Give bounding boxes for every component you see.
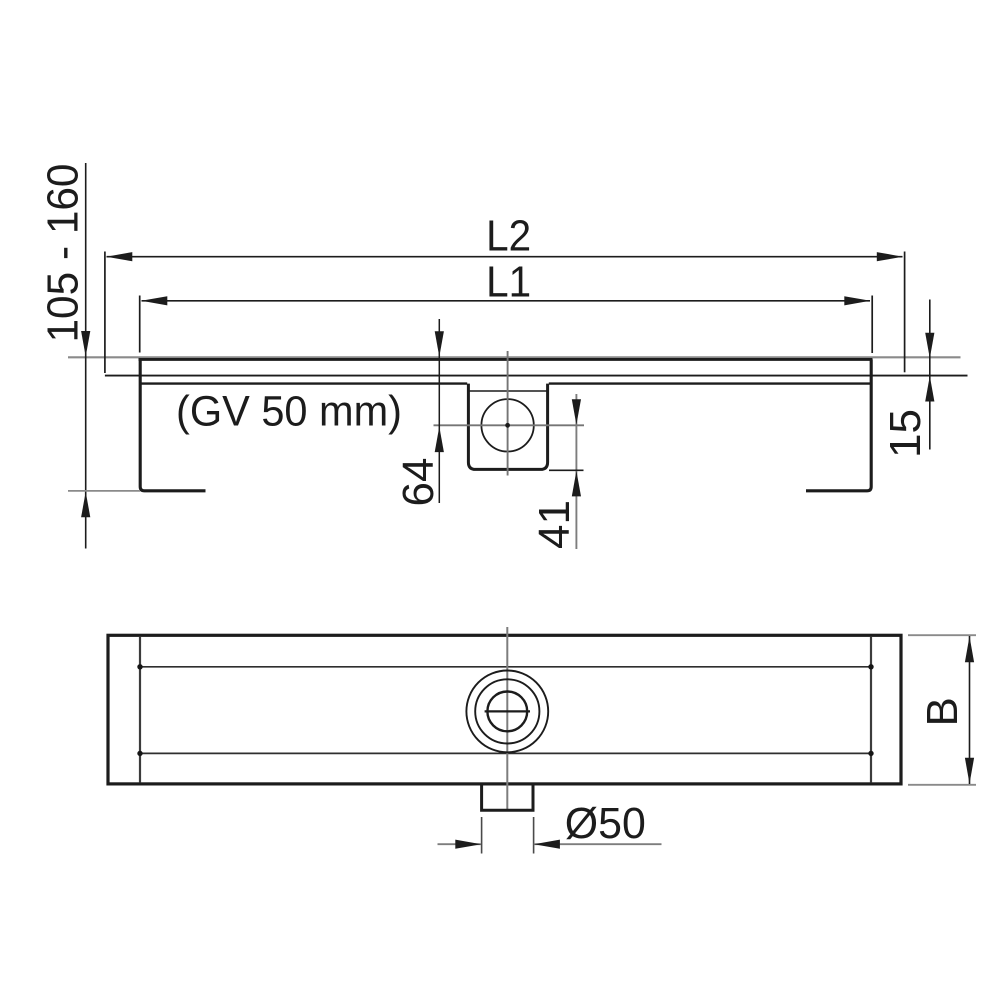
- dimension L2 left arrow: [106, 252, 132, 261]
- svg-text:64: 64: [394, 458, 443, 507]
- side view outlet circle: [481, 399, 533, 451]
- dimension L2 left extension line: [104, 252, 106, 374]
- left wall and foot: [140, 359, 205, 490]
- dimension 15 upper arrow: [925, 333, 934, 359]
- dimension L2 line: [107, 256, 903, 258]
- dimension 41 lower arrow: [572, 471, 581, 497]
- dimension D50 left arrow: [455, 840, 481, 849]
- dimension D50 left line segment: [438, 843, 482, 845]
- dimension 64 lower arrow: [435, 427, 444, 453]
- channel bottom edge right segment: [549, 382, 870, 384]
- dimension D50 right extension line: [533, 817, 535, 854]
- svg-text:105 - 160: 105 - 160: [39, 164, 88, 343]
- dimension L1 line: [142, 300, 871, 302]
- dimension 105-160 upper arrow: [81, 331, 90, 357]
- trap opening inner line: [469, 390, 548, 392]
- dimension 64 upper arrow: [435, 331, 444, 357]
- side view circle center dot: [505, 423, 510, 428]
- dimension B top arrow: [965, 636, 974, 662]
- vertical centerline (side view): [507, 351, 509, 476]
- plan view inner top edge: [140, 666, 871, 668]
- dimension L2 right arrow: [877, 252, 903, 261]
- plan view right inner edge: [870, 637, 872, 783]
- dimension 64 line: [438, 319, 440, 503]
- plan view corner dot bottom-left: [137, 751, 142, 756]
- channel middle edge / end flanges line (side view): [105, 375, 968, 377]
- dimension B top extension line: [908, 634, 976, 636]
- svg-text:L1: L1: [486, 258, 531, 307]
- floor reference line (gray, side view top surface): [68, 356, 961, 358]
- dimension 105-160 bottom extension line: [68, 490, 140, 492]
- horizontal centerline (side view): [434, 424, 585, 426]
- svg-text:15: 15: [881, 409, 930, 458]
- plan view drain outer circle: [466, 671, 548, 753]
- dimension L2 right extension line: [904, 252, 906, 373]
- dimension D50 left extension line: [481, 817, 483, 854]
- plan view drain middle circle: [475, 679, 539, 743]
- dimension B line: [969, 636, 971, 784]
- channel top edge (side view): [139, 358, 873, 361]
- dimension L1 right arrow: [844, 296, 870, 305]
- plan view drain horizontal bar: [485, 710, 530, 712]
- dimension B bottom extension line: [908, 784, 976, 786]
- dimension D50 right arrow: [534, 840, 560, 849]
- siphon trap U-body: [468, 384, 547, 470]
- dimension L1 left extension line: [139, 296, 141, 353]
- dimension 105-160 lower arrow: [81, 492, 90, 518]
- svg-text:Ø50: Ø50: [565, 799, 646, 848]
- svg-text:L2: L2: [486, 212, 531, 261]
- plan view drain inner circle: [487, 692, 527, 732]
- plan view vertical centerline: [506, 627, 508, 810]
- outlet stub (plan view): [482, 785, 533, 810]
- plan view corner dot bottom-right: [868, 751, 873, 756]
- dimension 41 trap-bottom extension line: [549, 469, 584, 471]
- svg-text:41: 41: [530, 500, 579, 549]
- dimension L1 left arrow: [141, 296, 167, 305]
- plan view corner dot top-right: [868, 664, 873, 669]
- plan view inner bottom edge: [140, 752, 871, 754]
- plan view left inner edge: [139, 637, 141, 783]
- dimension 105-160 line: [85, 163, 87, 549]
- channel bottom edge left segment: [142, 382, 468, 384]
- dimension 15 lower arrow: [925, 376, 934, 402]
- dimension D50 right line segment: [534, 843, 662, 845]
- plan view outer body rectangle: [108, 635, 901, 784]
- svg-text:(GV 50 mm): (GV 50 mm): [176, 388, 402, 436]
- dimension 15 line: [929, 300, 931, 450]
- dimension L1 right extension line: [871, 296, 873, 354]
- plan view corner dot top-left: [137, 664, 142, 669]
- dimension 41 line: [575, 394, 577, 549]
- svg-text:B: B: [918, 697, 967, 726]
- dimension B bottom arrow: [965, 758, 974, 784]
- dimension 41 upper arrow: [572, 399, 581, 425]
- right wall and foot: [806, 359, 871, 490]
